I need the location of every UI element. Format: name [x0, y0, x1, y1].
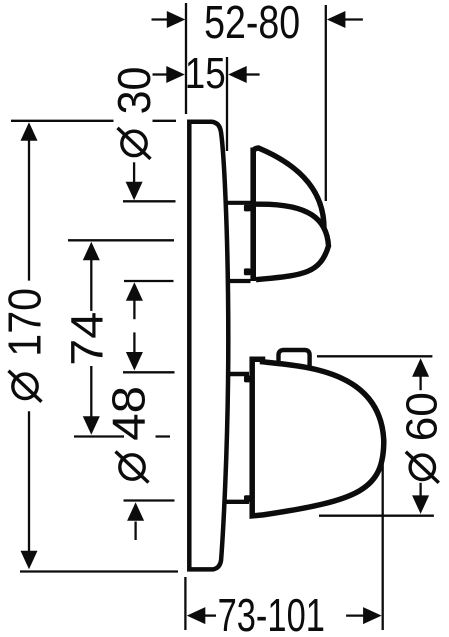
arrowhead 15 left: [166, 66, 185, 83]
upper handle top arc: [253, 148, 324, 228]
dimension line O60 upper tail: [419, 377, 421, 391]
clip bump lower stem bottom: [244, 495, 251, 502]
arrowhead 73-101 left: [187, 607, 206, 624]
upper stem bottom line: [227, 279, 251, 283]
arrowhead O170 up: [21, 122, 38, 141]
extension line L2 upper stem top: [123, 200, 176, 202]
dimension 15 left tail: [153, 73, 168, 75]
dimension line 74 lower: [90, 366, 92, 417]
extension line L8 plate bottom: [20, 570, 178, 572]
extension line L1 plate top: [11, 120, 176, 122]
dimension line O170 lower: [28, 411, 30, 551]
dimension line O170 upper: [28, 140, 30, 281]
arrowhead O60 down: [412, 495, 429, 514]
dimension 52-80 left tail: [152, 18, 170, 20]
extension line 15 right: [226, 57, 228, 151]
arrowhead 52-80 right: [327, 11, 346, 28]
arrowhead O30 down: [126, 182, 143, 201]
extension line 52-80/15 left: [185, 3, 187, 114]
svg-text:60: 60: [398, 392, 446, 441]
extension line L6 74 bottom: [74, 435, 170, 437]
diameter symbol of O30: [122, 131, 146, 155]
svg-text:74: 74: [61, 312, 112, 366]
arrowhead O30 up: [126, 282, 143, 301]
dimension line O30 up tail: [133, 301, 135, 320]
dimension line 74 upper: [90, 260, 92, 311]
upper stem top line: [225, 201, 251, 205]
dimension 73-101 right tail: [346, 614, 364, 616]
arrowhead 15 right: [228, 66, 247, 83]
dimension 15 right tail: [246, 73, 260, 75]
clip bump upper stem bottom: [244, 268, 251, 275]
arrowhead O48 up: [127, 502, 144, 521]
svg-text:48: 48: [103, 386, 155, 441]
extension line L3 74 top: [68, 239, 174, 241]
extension line L5 lower stem top: [123, 371, 175, 373]
extension line O60 top: [317, 355, 432, 357]
extension line 73-101 left: [184, 577, 186, 630]
dimension line O60 lower tail: [419, 483, 421, 497]
extension line L7 lower stem bottom: [124, 499, 175, 501]
upper handle back edge: [250, 148, 256, 282]
arrowhead O48 down: [126, 352, 143, 371]
dimension 52-80 right tail: [344, 18, 363, 20]
extension line 73-101 right: [382, 463, 384, 630]
arrowhead O60 up: [412, 358, 429, 377]
arrowhead 74 up: [83, 242, 100, 260]
handle nub: [279, 350, 310, 367]
dimension line O48 up tail: [134, 522, 136, 541]
svg-text:52-80: 52-80: [204, 0, 300, 48]
diameter symbol of O60: [410, 455, 434, 479]
svg-text:30: 30: [108, 67, 160, 115]
dimension 73-101 left tail: [204, 614, 216, 616]
arrowhead 73-101 right: [363, 607, 382, 624]
dimension line O48 down tail: [133, 332, 135, 352]
arrowhead 74 down: [83, 416, 100, 435]
svg-text:73-101: 73-101: [218, 589, 325, 637]
svg-text:15: 15: [185, 49, 226, 98]
lower handle outline: [252, 359, 384, 516]
clip bump lower stem top: [244, 376, 251, 383]
clip bump upper stem top: [244, 205, 251, 212]
extension line L4 upper stem bottom: [124, 280, 174, 282]
arrowhead 52-80 left: [167, 11, 186, 28]
diameter symbol of O48: [120, 455, 144, 479]
arrowhead O170 down: [21, 551, 38, 570]
escutcheon plate outline: [189, 122, 228, 570]
svg-text:170: 170: [0, 288, 50, 357]
upper knob front face: [256, 204, 329, 280]
dimension line O30 down tail: [133, 162, 135, 182]
lower stem bottom line: [225, 500, 249, 504]
diameter symbol of O170: [13, 374, 37, 398]
extension line O60 bottom: [319, 515, 434, 517]
extension line 52-80 right: [325, 5, 327, 201]
lower stem top line: [227, 372, 249, 376]
